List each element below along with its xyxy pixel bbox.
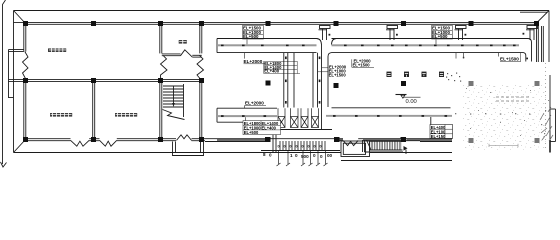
riser fitting 4 <box>523 26 538 41</box>
svg-text:0: 0 <box>269 153 272 158</box>
svg-text:EL+1500: EL+1500 <box>500 57 519 62</box>
tick marks under top tray <box>456 53 499 59</box>
riser fitting 3 <box>455 26 467 41</box>
top-left mitre <box>14 11 26 24</box>
speckle field right block <box>462 84 546 150</box>
corridor south wall segment B <box>270 138 334 140</box>
right edge arrow <box>549 140 551 153</box>
opening jambs <box>273 130 276 153</box>
bottom-left mitre <box>14 140 26 153</box>
right hatch diagonals <box>540 107 553 141</box>
svg-text:500: 500 <box>301 154 309 159</box>
opening frame under X-boxes <box>272 129 332 131</box>
dimension digits row <box>278 145 322 149</box>
cable ladder arrow <box>404 146 408 154</box>
dimension line <box>261 150 340 152</box>
room label 大厅 <box>179 40 187 44</box>
building outer left wall <box>13 11 15 153</box>
hall east wall <box>200 24 202 138</box>
stairs rungs <box>163 84 184 117</box>
vertical tray bundle <box>284 39 337 130</box>
svg-text:00: 00 <box>327 153 333 158</box>
corridor south wall segment C <box>339 139 421 141</box>
svg-text:0: 0 <box>278 145 280 149</box>
svg-text:EL+400: EL+400 <box>262 125 277 130</box>
svg-text:EL+1500: EL+1500 <box>329 73 347 78</box>
stairs up arrow <box>172 86 175 107</box>
window zigzag below hall west <box>161 55 168 79</box>
scattered dots right field <box>466 88 549 136</box>
dimension feet ticks <box>277 163 328 166</box>
lower-left cable tray <box>217 108 277 122</box>
svg-text:8: 8 <box>263 152 266 157</box>
svg-text:EL+2000: EL+2000 <box>245 101 264 106</box>
lower-right tray leader <box>430 117 432 125</box>
svg-text:0: 0 <box>302 145 304 149</box>
svg-text:EL+2000: EL+2000 <box>244 59 263 64</box>
south door zigzag above opening <box>177 135 192 141</box>
level marker 0.00 <box>396 95 421 105</box>
right solid edge lower <box>549 75 551 147</box>
cable pit <box>341 141 370 157</box>
window zigzag below hall east <box>197 55 204 79</box>
sheet border left line <box>1 0 7 167</box>
svg-text:0: 0 <box>290 145 292 149</box>
west wall window zigzag <box>23 52 29 80</box>
riser fitting 1 <box>319 26 331 41</box>
columns top row <box>23 21 539 26</box>
right wall inner lines <box>537 24 544 62</box>
EL label stack top-left of tray <box>243 26 262 40</box>
south porch jambs <box>173 142 204 156</box>
svg-text:EL+500: EL+500 <box>244 130 259 135</box>
cable ladder rungs <box>370 142 401 150</box>
corridor south wall segment D gray <box>420 139 452 142</box>
columns bottom row <box>23 137 406 142</box>
svg-text:0: 0 <box>320 145 322 149</box>
top cable tray horizontal run <box>217 39 528 53</box>
line below ladder <box>341 160 452 162</box>
dashed line lower right <box>489 144 518 147</box>
hall west wall <box>160 24 162 138</box>
gray columns middle row <box>469 81 540 86</box>
label 电缆夹层 glyph blobs <box>387 72 445 77</box>
svg-text:0: 0 <box>308 145 310 149</box>
dots near label <box>446 73 461 82</box>
west wall double line <box>24 24 26 139</box>
dimension drop lines <box>279 151 326 165</box>
hall door swing <box>181 50 193 57</box>
top tray center dots <box>221 45 516 47</box>
right dotted horizontal <box>455 113 530 115</box>
lower-right cable tray <box>326 108 452 117</box>
south wall inner double line left section <box>26 139 205 141</box>
lower-right tray dots <box>333 115 447 117</box>
dashed lines upper right <box>496 97 530 101</box>
svg-text:0.00: 0.00 <box>406 99 417 105</box>
right bracket <box>550 109 556 142</box>
svg-text:0: 0 <box>295 153 298 158</box>
building outer bottom line <box>14 152 342 154</box>
south wall window zigzag 2 <box>100 140 117 146</box>
building outer right wall upper <box>548 11 550 63</box>
columns middle row <box>23 78 406 88</box>
corridor south wall segment A gray <box>205 139 266 142</box>
top-right mitre <box>536 11 549 24</box>
right dotted wall <box>545 63 547 150</box>
EL stack mid-right B <box>329 64 347 77</box>
north wall double line <box>14 23 537 25</box>
west annex bay <box>9 50 24 99</box>
EL stack at opening <box>243 121 281 135</box>
svg-text:0: 0 <box>296 145 298 149</box>
interior wall horizontal <box>9 80 202 82</box>
hall south sill <box>162 54 202 57</box>
X-box risers <box>278 117 319 128</box>
vertical tray dots <box>285 57 320 104</box>
svg-text:0: 0 <box>320 154 323 159</box>
interior wall between transformer rooms <box>93 82 95 139</box>
stairs break line <box>163 110 185 120</box>
top tray right end drop <box>524 39 532 62</box>
room label 低压配电间 <box>48 48 66 52</box>
comb detail verticals <box>280 141 325 151</box>
svg-text:0: 0 <box>314 145 316 149</box>
svg-text:0: 0 <box>284 145 286 149</box>
EL label block right tray <box>430 125 453 140</box>
riser fitting 2 <box>386 26 398 41</box>
svg-text:0: 0 <box>313 153 316 158</box>
south wall window zigzag 1 <box>71 140 90 146</box>
cable ladder detail <box>363 140 404 152</box>
lower-left tray dots <box>221 115 266 117</box>
EL label stack top-middle <box>432 26 451 40</box>
room label 1#变压器室 <box>50 113 72 117</box>
svg-text:1: 1 <box>290 153 293 158</box>
svg-text:EL+150: EL+150 <box>431 134 446 139</box>
building outer top line <box>14 10 550 12</box>
EL stack mid-right A <box>353 59 372 68</box>
corridor south wall pit zigzag <box>343 140 358 145</box>
svg-text:EL+1500: EL+1500 <box>353 63 371 68</box>
room label 2#变压器室 <box>115 113 137 117</box>
gray columns bottom row <box>469 138 540 143</box>
EL stack mid-left <box>264 61 282 74</box>
